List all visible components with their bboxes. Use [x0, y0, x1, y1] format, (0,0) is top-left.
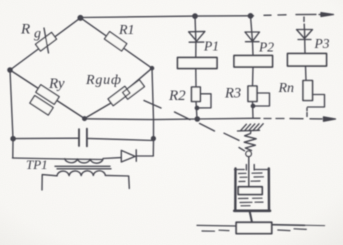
arrow bottom right — [324, 118, 328, 120]
wire right vertical — [152, 68, 154, 156]
node branch2 top — [248, 14, 252, 18]
gland tick left — [245, 165, 247, 171]
node top corner — [78, 16, 83, 21]
svg-text:P2: P2 — [258, 40, 274, 55]
wire — [103, 157, 121, 160]
svg-text:g: g — [34, 27, 41, 42]
wire top bus dashed — [264, 13, 316, 16]
node bottom corner — [83, 117, 87, 121]
diode VD4 — [121, 150, 135, 162]
water surface left — [197, 224, 236, 227]
liquid strokes — [239, 173, 264, 206]
spring — [244, 132, 256, 151]
svg-text:Rguф: Rguф — [85, 73, 122, 88]
relay coil P2 — [234, 56, 273, 68]
diode VD3 — [297, 30, 313, 39]
piston — [238, 187, 262, 195]
wire capacitor left — [13, 137, 79, 139]
wire bottom bus — [85, 118, 261, 119]
resistor Rн — [303, 81, 313, 101]
wire — [195, 69, 197, 88]
dashed link line — [144, 101, 245, 151]
svg-text:Rn: Rn — [278, 81, 295, 96]
node left corner — [8, 68, 12, 72]
node right corner — [150, 67, 153, 70]
wire — [195, 42, 197, 58]
wire branch3 dashed top — [303, 17, 305, 29]
wire capacitor right — [87, 138, 153, 140]
support hatching — [238, 129, 260, 132]
water surface right — [273, 224, 305, 227]
resistor R3 — [248, 86, 257, 102]
diode VD2 — [245, 32, 260, 41]
transformer core — [55, 165, 110, 167]
rod upper — [248, 157, 250, 187]
resistor R2 — [192, 87, 201, 102]
node branch1 bottom — [195, 117, 199, 121]
transformer TP1 secondary winding — [57, 171, 105, 176]
wire — [136, 155, 153, 157]
resistor Rд — [35, 32, 56, 51]
node right tee — [152, 137, 156, 141]
wire secondary right lead — [105, 175, 129, 188]
wire branch1 — [194, 16, 197, 42]
float mass — [236, 222, 272, 233]
wire R2 tap loop — [197, 94, 211, 108]
capacitor C1 — [78, 129, 80, 146]
wire bridge arm top-left — [10, 18, 81, 70]
transformer TP1 primary winding — [64, 158, 103, 161]
wire — [196, 102, 197, 120]
svg-text:R1: R1 — [118, 23, 135, 38]
node capacitor tee — [11, 137, 15, 141]
diode VD1 — [189, 31, 205, 41]
svg-text:P3: P3 — [314, 36, 330, 51]
svg-text:Ry: Ry — [48, 76, 65, 92]
svg-text:R2: R2 — [168, 88, 186, 104]
svg-text:R: R — [20, 22, 30, 38]
wire — [252, 102, 255, 119]
wire Rн tap loop — [308, 95, 325, 108]
dashpot container bottom — [234, 210, 270, 213]
wire bridge arm top-right — [81, 18, 153, 68]
resistor Rдиф — [108, 86, 130, 105]
dashpot container right wall — [268, 169, 271, 211]
wire — [252, 42, 255, 56]
pivot circle — [246, 151, 252, 157]
rod lower — [250, 211, 252, 222]
resistor Rу — [36, 85, 59, 105]
svg-text:R3: R3 — [224, 86, 241, 102]
wire bridge arm bottom-right — [85, 68, 153, 118]
wire — [305, 66, 308, 81]
wire — [304, 29, 307, 54]
gland tick right — [253, 165, 255, 171]
wire primary lead — [13, 158, 65, 159]
wire R3 tap loop — [253, 93, 270, 106]
svg-text:TP1: TP1 — [26, 157, 48, 172]
wire branch3 dashed bottom — [306, 108, 308, 117]
wire top bus — [81, 16, 254, 18]
wire bridge arm bottom-left — [10, 70, 85, 119]
dashpot rim right — [254, 169, 269, 171]
dashpot container left wall — [234, 169, 237, 211]
wire branch2 — [251, 16, 253, 42]
resistor R1 — [104, 32, 126, 51]
wire — [252, 67, 255, 86]
arrow top right — [319, 14, 327, 16]
dashpot rim left — [235, 169, 245, 171]
wire left vertical — [10, 70, 13, 158]
wire secondary left lead — [42, 175, 57, 190]
relay coil P1 — [178, 58, 218, 69]
svg-text:P1: P1 — [203, 39, 219, 54]
node branch1 top — [193, 14, 197, 18]
relay coil P3 — [288, 54, 327, 67]
wire bottom bus dashed — [264, 118, 322, 120]
